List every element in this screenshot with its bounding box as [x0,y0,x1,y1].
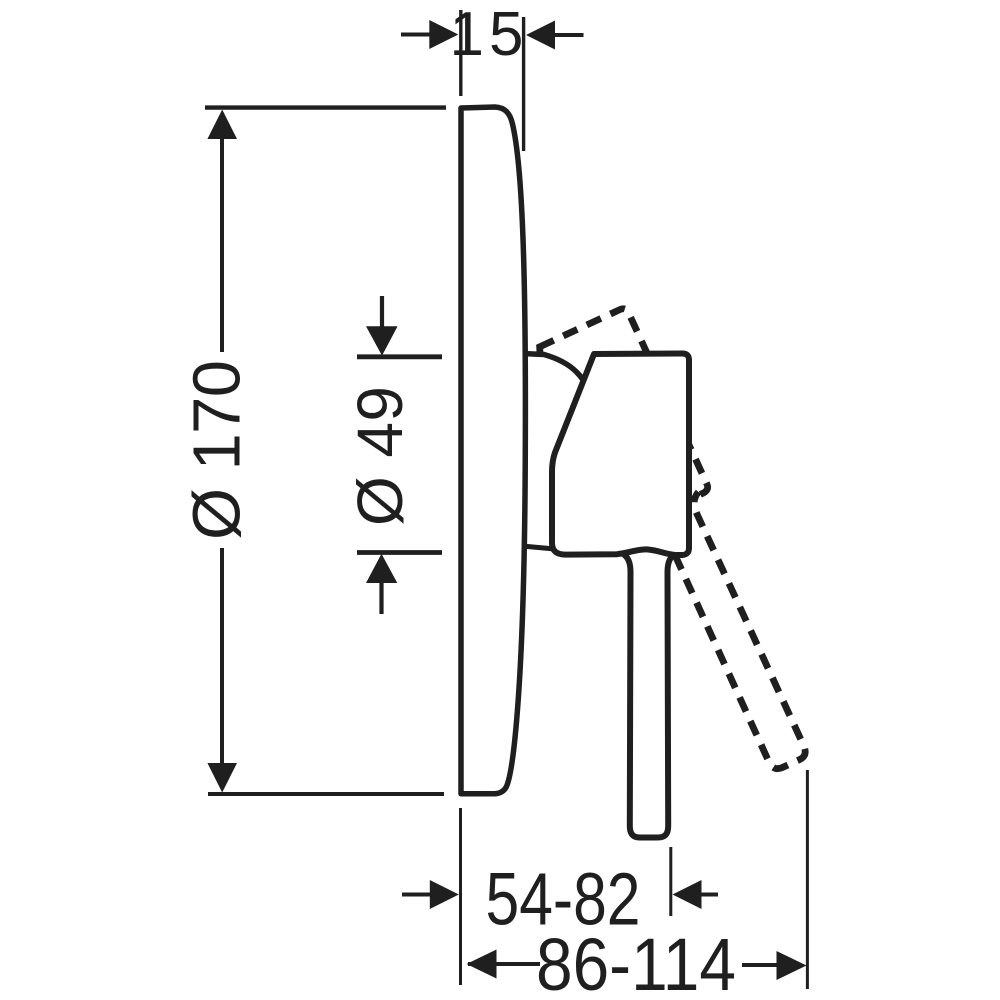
dim 15: left arrowhead [429,20,458,49]
handle body (solid) [552,354,689,556]
dim 54-82: right extension line [669,847,672,916]
wall plate (escutcheon, side view) [461,107,525,794]
dashed swivelled body [501,307,709,547]
dim Ø170: dimension line upper segment [220,137,224,352]
dim 15: left arrow tail [401,33,431,37]
dim Ø170: dimension line lower segment [220,548,224,767]
dashed swivelled lever [646,492,818,776]
dim Ø170: top arrowhead [207,110,237,140]
svg-text:86-114: 86-114 [536,923,736,1000]
dim Ø49: lower arrowhead [366,554,397,583]
dim 86-114: dimension line right segment [742,963,778,967]
dim 54-82: left arrow tail [402,893,431,897]
svg-text:Ø 170: Ø 170 [180,360,255,540]
dim Ø49: upper arrowhead [366,326,398,355]
dim 54-82: right arrow tail [700,893,718,897]
dim 15: left extension line [459,10,462,96]
lever (solid) [620,552,678,838]
dim Ø49: upper arrow tail [380,296,384,327]
sleeve bottom edge [522,546,552,549]
dim 54-82: right arrowhead [673,880,702,909]
dim 54-82: left arrowhead [430,880,459,909]
sleeve top edge [522,354,586,385]
dim Ø170: bottom arrowhead [207,763,237,793]
dim Ø170: top extension line [205,105,446,109]
dashed outline: handle in swivelled position (rotated about cartridge pivot) [501,307,827,804]
dim 15: right extension line [522,17,525,151]
dim 86-114: left arrowhead [467,950,497,979]
dim 54-82: left extension line [459,808,462,985]
svg-text:Ø 49: Ø 49 [344,386,416,526]
dim 15: right arrowhead [526,21,555,50]
dim Ø49: lower arrow tail [379,583,383,614]
dim Ø170: bottom extension line [208,792,444,796]
dim 86-114: right extension line [806,770,809,989]
dim 86-114: dimension line left segment [468,962,540,966]
dim Ø49: upper tick [357,354,442,359]
dim 86-114: right arrowhead [777,951,807,980]
dim 15: right arrow tail [554,33,584,37]
dim Ø49: lower tick [357,550,442,555]
sleeve (cartridge escutcheon cone) fill [523,352,586,549]
